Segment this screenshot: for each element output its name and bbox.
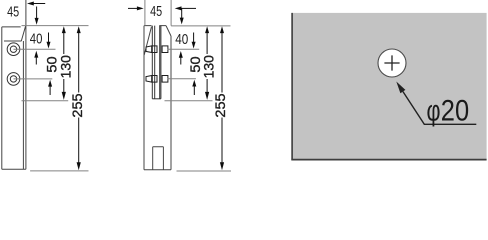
dimension 45 middle view left arrow <box>128 6 144 10</box>
svg-text:40: 40 <box>30 31 43 48</box>
svg-text:130: 130 <box>201 55 216 78</box>
middle view hole1 center line <box>168 48 200 50</box>
middle view bolt 1 <box>146 46 168 53</box>
dimension 255 middle view line and arrows <box>220 26 224 170</box>
middle view 45 extension line left <box>144 0 146 26</box>
svg-text:255: 255 <box>213 93 228 117</box>
drill hole cross mark <box>384 55 399 70</box>
left view bolt hole 1 <box>7 43 20 56</box>
left view 130 reference line <box>22 100 69 102</box>
dimension 40 middle view bottom arrow <box>192 33 196 49</box>
middle view 45 extension line right <box>170 0 172 26</box>
drill hole circle <box>378 49 406 77</box>
dimension 40 left view bottom arrow <box>47 33 51 49</box>
dimension 50 middle view bottom arrow <box>192 80 196 95</box>
hole diameter leader arrow <box>396 82 476 125</box>
svg-text:50: 50 <box>44 56 59 72</box>
middle view hole2 center line <box>168 78 196 80</box>
dimension 45 middle view right arrow <box>175 6 196 10</box>
middle view bolt 2 <box>146 76 168 83</box>
dimension 40 left view top arrow <box>35 7 39 25</box>
dimension 50 left view bottom arrow <box>48 80 52 95</box>
middle view 130 reference line <box>165 100 213 102</box>
dimension 40 middle view top arrow <box>180 8 184 24</box>
middle view top extension line <box>171 25 230 27</box>
middle view foot slot <box>153 147 164 170</box>
svg-text:40: 40 <box>175 31 188 48</box>
dimension 130 middle view line and arrows <box>205 26 209 100</box>
dimension 45 left view arrow <box>27 2 45 6</box>
svg-text:130: 130 <box>58 55 73 78</box>
glass panel left border <box>291 13 293 160</box>
dimension 130 left view line and arrows <box>62 26 66 100</box>
dimension 50 left view top arrow <box>34 51 38 65</box>
glass panel <box>292 13 487 160</box>
svg-text:φ20: φ20 <box>427 95 470 128</box>
middle view body outline <box>144 26 171 170</box>
left view plate outline <box>2 0 26 169</box>
left view hole1 center line <box>14 48 56 50</box>
middle view slot bottom <box>152 98 161 100</box>
left view bottom extension line <box>30 170 88 172</box>
middle view bottom extension line <box>177 170 232 172</box>
dimension 50 middle view top arrow <box>179 51 183 65</box>
svg-text:45: 45 <box>7 3 19 20</box>
left view hole2 center line <box>14 78 53 80</box>
svg-text:45: 45 <box>150 3 162 20</box>
left view top extension line <box>22 25 89 27</box>
dimension 255 left view line and arrows <box>77 26 81 170</box>
middle view glass slot right faces <box>160 26 161 99</box>
glass panel bottom border <box>291 159 486 161</box>
left view bolt hole 2 <box>7 73 20 86</box>
middle view glass slot left faces <box>152 26 154 99</box>
svg-text:255: 255 <box>70 93 85 117</box>
